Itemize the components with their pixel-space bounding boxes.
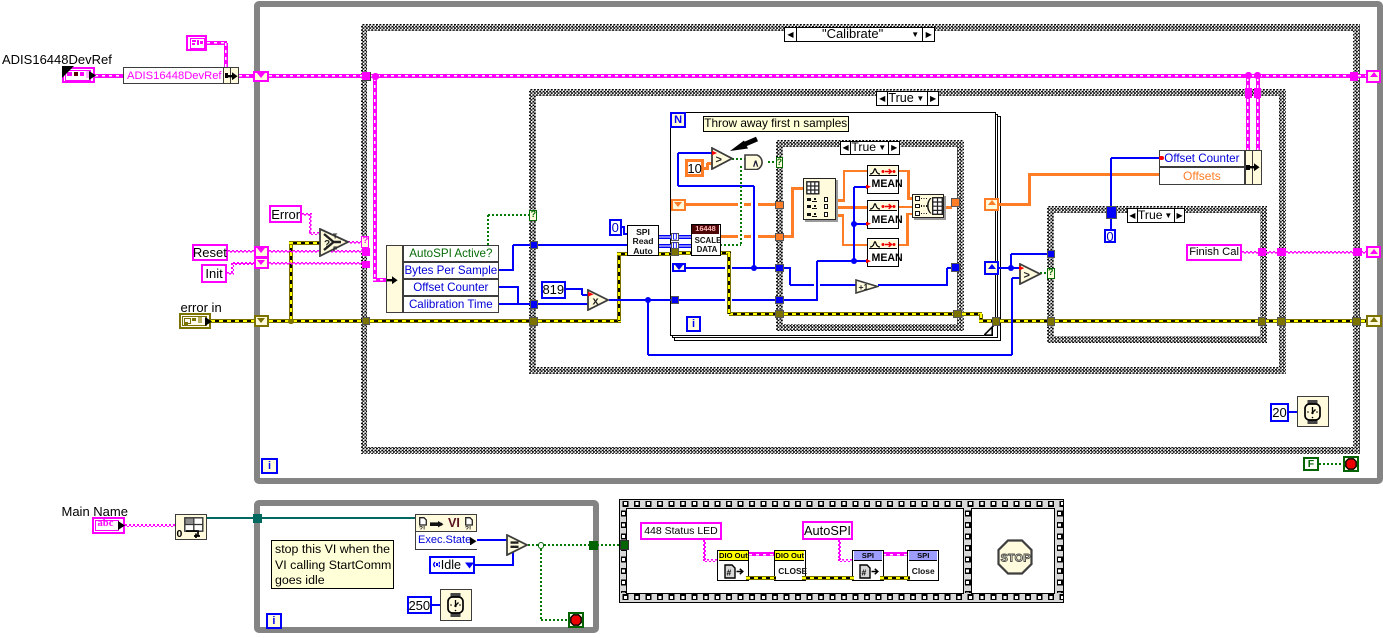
int wire MEAN2 feed <box>854 223 868 225</box>
subVI SPI Read Auto <box>627 225 659 256</box>
float array wire into Offsets property <box>1028 173 1160 176</box>
int wire multiply branch down <box>647 300 649 355</box>
error wire: branch up to Select node <box>289 244 293 322</box>
crossing gap DevRef/pinkdrop guard <box>0 0 1 1</box>
tunnel Reset on Calibrate left <box>362 248 370 256</box>
boolean constant F <box>1303 457 1319 471</box>
int wire right SR -> junction/> input <box>999 267 1020 269</box>
tunnel DevRef on Calibrate left <box>362 72 371 81</box>
tunnel Calibration Time on True left <box>530 300 538 309</box>
string wire Reset -> loop SR <box>228 250 254 253</box>
string wire Finish Cal -> Calibrate border <box>1286 251 1354 254</box>
int wire junction -> small case tunnel <box>1011 253 1048 255</box>
tunnel blue out on inner case right <box>951 263 960 272</box>
int wire tunnel A dropper <box>789 268 791 285</box>
wire DevRef main horizontal inside case <box>370 74 1351 78</box>
string wire Reset inside loop <box>269 250 362 253</box>
tunnel ? (AutoSPI) on True left <box>529 210 537 220</box>
string constant 448 Status LED <box>640 522 723 539</box>
string wire Init stub <box>227 272 234 275</box>
wire DevRef drop to Offset Counter node (1) <box>1246 78 1250 151</box>
subVI MEAN 2 <box>867 200 899 229</box>
error wire DIO2->SPI1 <box>802 576 854 580</box>
float array wire for-loop SR -> up turn <box>999 203 1031 206</box>
tunnel error on for loop left <box>671 248 679 256</box>
open VI reference node <box>175 514 208 540</box>
property node Offset Counter / Offsets (write) <box>1159 150 1262 185</box>
error wire re-draw vertical inside for loop <box>727 253 731 314</box>
error wire: branch into Select middle input <box>289 241 320 245</box>
shift register Reset (left) <box>254 246 269 258</box>
float wire MEAN3 out <box>899 244 909 247</box>
float wire MEAN2 out -> build-array in2 <box>899 206 913 209</box>
shift register error (left) <box>254 315 269 327</box>
tunnel orange 1 on inner case left <box>775 201 784 209</box>
float wire into build-array in1 <box>907 197 912 200</box>
junction dot error branch <box>288 319 293 324</box>
tunnel error on True right <box>1277 317 1286 326</box>
ref wire DIO Out -> DIO Out CLOSE <box>749 552 775 556</box>
float array wire build-array -> inner case tunnel <box>944 206 952 209</box>
tunnel blue B on inner case left <box>775 296 784 304</box>
bool wire loop2 -> sequence tunnel <box>597 544 621 546</box>
error wire SPI1->SPI2 <box>880 576 910 580</box>
bool wire drop to loop2 stop terminal <box>540 545 542 620</box>
decimate 1D array node <box>803 178 836 220</box>
float wire Decimate out3 <box>836 214 845 217</box>
greater-than node (samples) <box>1019 263 1042 285</box>
DIO Out write node <box>717 550 749 581</box>
coercion dot MEAN2 input <box>866 222 871 226</box>
case selector "Calibrate" <box>784 27 935 43</box>
case selector True (small right) <box>1127 208 1185 223</box>
array wire SPI out1 -> indexing tunnel <box>659 235 673 239</box>
int wire MEAN1 feed <box>854 186 868 188</box>
multiply node <box>587 289 610 311</box>
tunnel DevRef drop 2 on True top <box>1254 88 1261 97</box>
svg-text:STOP: STOP <box>1000 552 1030 564</box>
string wire Init riser <box>231 263 234 273</box>
int wire Calibration Time out -> multiply <box>499 303 589 305</box>
error wire: inner case -> jog <box>962 312 982 316</box>
int wire 0 -> SPI Read Auto stub <box>621 226 626 228</box>
int wire MEAN column vertical <box>853 187 855 261</box>
numeric constant 20 <box>1270 403 1289 422</box>
float wire Decimate out1 <box>836 199 846 202</box>
string constant AutoSPI <box>802 521 853 540</box>
wire DevRef drop to property node <box>373 78 377 282</box>
shift register blue (left) <box>672 263 686 273</box>
comment pointer arrow <box>730 136 758 152</box>
while loop 1 stop condition terminal <box>1343 456 1359 472</box>
float wire inner tunnel -> riser <box>784 235 795 238</box>
case structure True (outer) frame <box>529 89 1286 374</box>
control terminal Main Name (string) <box>92 517 124 533</box>
int wire +1 -> inner case right tunnel <box>947 267 952 269</box>
svg-text:T: T <box>333 234 338 241</box>
while loop 1 border (main outer loop) <box>254 1 1383 485</box>
int wire 10 into > <box>707 162 713 165</box>
string wire AutoSPI -> SPI node <box>838 559 853 562</box>
constant box ADIS16448DevRef with unbundle columns <box>123 67 239 85</box>
junction ring equals output <box>538 542 544 548</box>
error wire: inside small case <box>1055 319 1259 323</box>
string wire Init -> loop SR <box>233 262 254 265</box>
case structure True (inner, around MEAN nodes) frame <box>776 140 965 331</box>
subVI MEAN 1 <box>867 165 899 194</box>
float wire Decimate out3 dropper <box>842 214 845 246</box>
wire DevRef loop tunnel->case tunnel <box>269 74 362 78</box>
svg-text:>: > <box>1023 269 1029 281</box>
wait ms node (250) <box>440 589 472 621</box>
crossing gap orange/blue 1 <box>751 202 757 208</box>
case selector terminal ? <box>361 236 369 248</box>
svg-text:x: x <box>593 296 600 308</box>
error wire: error in -> loop SR <box>211 319 254 323</box>
svg-text:>: > <box>716 154 722 166</box>
for loop frame (stacked sheets with page curl) <box>674 116 1000 340</box>
bool wire into loop2 stop terminal <box>541 619 570 621</box>
int wire 10 jog <box>706 163 709 169</box>
coercion dot MEAN1 input <box>866 185 871 189</box>
int wire +1 out <box>878 284 948 286</box>
tunnel orange 2 on inner case left <box>775 233 784 241</box>
float wire into MEAN3 <box>842 244 868 247</box>
coercion dot MEAN3 input <box>866 259 871 263</box>
error wire: vertical up to SPI Read Auto <box>617 252 621 321</box>
int wire Offset Counter dropper <box>517 287 519 304</box>
subVI MEAN 3 <box>867 238 899 267</box>
string wire AutoSPI drop <box>838 540 841 561</box>
tunnel boolean on loop2 right <box>589 541 597 550</box>
int wire bottom riser to > <box>1011 278 1013 354</box>
int wire Idle riser <box>512 550 514 565</box>
tunnel error on inner case right <box>953 310 962 319</box>
comment stop this VI <box>271 540 394 589</box>
error wire: to inner case tunnel <box>729 312 777 316</box>
junction DevRef drop 2 <box>1254 72 1261 79</box>
svg-text:?!: ?! <box>419 525 425 530</box>
for loop count terminal N <box>670 112 686 128</box>
error wire: inside for loop behind SCALE DATA <box>678 251 731 255</box>
bool wire F -> loop1 stop terminal <box>1319 463 1344 465</box>
int wire shift reg -> inner case tunnel A <box>684 267 777 269</box>
shift register Finish Cal (right) <box>1366 246 1381 258</box>
error wire: True case -> up-turn <box>538 319 621 323</box>
case structure True (right, Finish Cal) frame <box>1047 206 1267 343</box>
int wire 250 -> wait <box>432 604 442 606</box>
int wire into +1 <box>790 284 857 286</box>
wire queue icon horizontal <box>207 41 227 45</box>
label Main Name <box>62 504 128 519</box>
svg-text:+1: +1 <box>859 282 869 292</box>
int wire multiply out -> for loop tunnel <box>609 299 673 301</box>
increment +1 node <box>855 279 879 294</box>
junction dot right SR <box>1008 265 1014 271</box>
int wire 20 -> wait <box>1289 411 1299 413</box>
shift register DevRef (left) <box>253 71 270 83</box>
string wire 448 Status LED -> DIO node <box>703 559 719 562</box>
case selector True (outer) <box>876 91 939 106</box>
float wire into MEAN1 <box>843 170 868 173</box>
float array wire for-loop SR -> inner case tunnel <box>684 203 777 206</box>
junction dot SR tap <box>751 265 757 271</box>
int wire Idle into equals <box>507 549 513 551</box>
int wire tap riser left <box>677 153 679 187</box>
bool wire And gate output -> case selector <box>768 161 777 163</box>
float wire into build-array in3 <box>907 213 913 216</box>
junction dot MEAN3 feed <box>851 258 857 264</box>
for loop iteration terminal i <box>686 316 702 332</box>
crossing gap orange/green 2 <box>738 234 744 240</box>
string wire Init inside loop <box>269 262 362 265</box>
error wire: loop SR -> case tunnel <box>269 319 362 323</box>
tunnel DevRef on Calibrate right <box>1350 72 1359 81</box>
int wire 0 (small case) riser <box>1110 158 1112 229</box>
bool wire AutoSPI Active -> tunnel <box>488 214 530 216</box>
greater-than node (i > 10) <box>711 147 734 170</box>
int wire Exec.State -> equals <box>477 539 508 541</box>
case selector True (inner) <box>840 141 900 155</box>
int wire 819 into multiply <box>582 294 589 296</box>
while loop 1 iteration terminal i <box>261 458 277 474</box>
string constant Init <box>201 264 227 283</box>
int wire +1 riser <box>946 268 948 285</box>
float array wire riser to Offsets <box>1028 173 1031 205</box>
crossing gap orange/green 1 <box>738 202 744 208</box>
numeric constant 10 <box>685 159 704 177</box>
int wire 819 jog <box>581 289 583 295</box>
int wire 0 jog <box>623 227 625 235</box>
ref wire SPI -> SPI Close <box>883 552 908 556</box>
tunnel Bytes Per Sample on True left <box>530 241 538 249</box>
numeric constant 0 (SPI reads) <box>609 219 622 236</box>
tunnel DevRef drop 1 on True top <box>1245 88 1252 97</box>
junction dot MEAN2 feed <box>851 221 857 227</box>
bool wire = output <box>528 544 590 546</box>
bool wire SCALE DATA -> And gate horizontal <box>720 244 741 246</box>
error wire: inside Calibrate case <box>370 319 530 323</box>
float wire MEAN1 out <box>899 170 910 173</box>
crossing gap blueSR/error <box>725 266 733 271</box>
wire DevRef drop to Offset Counter node (2) <box>1256 78 1260 151</box>
string wire Error drop <box>309 214 312 234</box>
int wire MEAN3 feed <box>817 260 868 262</box>
svg-text:#: # <box>727 567 732 577</box>
equals node <box>506 534 529 556</box>
error wire: behind SPI Read Auto to for-loop tunnel <box>617 252 672 256</box>
tunnel Finish Cal on small case right <box>1258 248 1266 257</box>
int wire into > lower input <box>1012 277 1020 279</box>
string wire Main Name -> open ref <box>125 524 176 527</box>
float wire Decimate out1 riser <box>843 170 846 202</box>
wait ms node (20) <box>1297 396 1329 428</box>
error wire: True case -> Calibrate border <box>1286 319 1354 323</box>
error wire: Calibrate border -> loop SR <box>1361 319 1369 323</box>
control terminal ADIS16448DevRef (cluster refnum) <box>62 67 95 83</box>
int wire multiply -> inner case tunnel B <box>672 299 777 301</box>
string wire select output -> case selector <box>348 241 362 244</box>
bool wire AutoSPI Active riser <box>487 215 489 245</box>
select node (case chooser) <box>319 228 350 257</box>
tunnel error on True left <box>529 317 538 326</box>
indexing tunnel 2 on for loop <box>671 242 679 250</box>
tunnel ? on small case left (selector) <box>1047 268 1055 279</box>
flat sequence structure (film strip frame, 2 frames) <box>619 499 1064 603</box>
float array wire SCALE DATA -> inner case tunnel <box>720 235 776 238</box>
error wire: for loop -> small case <box>1000 319 1048 323</box>
int wire Idle -> jog <box>475 564 514 566</box>
string wire 448 Status LED drop <box>703 540 706 562</box>
tunnel error on Calibrate left <box>362 317 371 326</box>
tunnel error on inner case left <box>775 310 784 319</box>
array wire tunnel -> SCALE DATA in1 <box>678 235 691 239</box>
int wire Bytes Per Sample tunnel -> SPI node <box>538 244 629 246</box>
int wire Bytes Per Sample out <box>499 269 514 271</box>
float wire into Decimate input <box>791 187 803 190</box>
error wire: small case -> True case border <box>1265 319 1278 323</box>
coercion dot > count input <box>712 150 718 155</box>
junction dot multiply branch <box>645 297 651 303</box>
indexing tunnel 1 on for loop <box>671 233 679 241</box>
shift register Init (left) <box>254 257 269 269</box>
int wire zigzag dropper (x754) <box>753 186 755 268</box>
invoke node VI / Exec.State <box>415 514 477 550</box>
tunnel Init on Calibrate left <box>362 261 370 269</box>
string constant Error <box>269 205 302 224</box>
SPI Close node <box>907 550 939 581</box>
error wire: jog down <box>979 314 983 322</box>
wire queue icon vertical drop <box>224 43 228 68</box>
queue/notifier refnum icon <box>186 35 207 51</box>
tunnel error on Calibrate right <box>1352 317 1361 326</box>
build array node <box>912 194 944 218</box>
label ADIS16448DevRef <box>2 52 112 67</box>
case structure "Calibrate" frame <box>361 24 1360 453</box>
svg-text:∧: ∧ <box>752 158 759 169</box>
numeric constant 250 <box>407 596 432 614</box>
junction DevRef drop <box>372 73 379 80</box>
label error in <box>181 300 222 315</box>
svg-text:?!: ?! <box>465 525 471 530</box>
tunnel error on small case right <box>1258 317 1266 326</box>
int wire Bytes Per Sample riser <box>512 245 514 270</box>
wire DevRef name box->loop tunnel <box>239 74 254 78</box>
error wire DIO1->DIO2 <box>746 576 776 580</box>
int wire 10 -> > node <box>704 167 709 170</box>
string constant Reset <box>192 244 229 262</box>
int wire Bytes Per Sample -> tunnel <box>513 244 531 246</box>
array wire tunnel -> SCALE DATA in2 <box>678 244 691 248</box>
string wire Finish Cal -> small case tunnel <box>1242 251 1258 254</box>
tunnel error on for loop right <box>992 317 1001 326</box>
int wire MEAN feed riser <box>816 261 818 300</box>
teal wire open VI ref -> invoke node <box>207 517 417 519</box>
SPI write node <box>852 550 884 581</box>
array wire SPI out2 -> indexing tunnel <box>659 244 673 248</box>
shift register error (right) <box>1366 315 1382 328</box>
int wire junction riser <box>1010 254 1012 268</box>
while loop 2 border (stop-watch loop) <box>254 500 599 634</box>
property node AutoSPI Active?/Bytes Per Sample/Offset Counter/Calibration Time <box>386 245 500 313</box>
int wire 819 out <box>566 288 583 290</box>
tunnel error on small case left <box>1047 317 1055 325</box>
wire DevRef stub into property node arrow <box>373 278 388 282</box>
crossing gap orange/blue 2 <box>751 234 757 240</box>
numeric constant 0 (small case) <box>1104 229 1117 244</box>
enum constant Idle <box>429 556 475 573</box>
svg-text:#: # <box>862 567 867 577</box>
while loop 2 stop condition terminal <box>568 612 584 628</box>
crossing gap +1/vertical <box>814 283 820 287</box>
And gate <box>744 154 768 171</box>
junction DevRef drop 1 <box>1245 72 1252 79</box>
comment Throw away first n samples <box>703 116 850 132</box>
crossing gap blueB/error <box>725 297 733 302</box>
float wire riser to Decimate <box>791 187 794 238</box>
shift register orange (left) <box>671 199 686 211</box>
while loop 2 iteration terminal i <box>266 613 282 629</box>
string wire Error label <box>302 213 312 216</box>
int wire tunnel B -> riser <box>784 299 819 301</box>
bool wire And gate second input riser <box>740 166 742 246</box>
subVI 16448 SCALE DATA <box>691 224 721 257</box>
float wire Decimate out2 -> MEAN2 <box>836 206 868 209</box>
string wire Error into select <box>309 232 320 235</box>
error wire: jog -> for loop exit tunnel <box>979 319 994 323</box>
tunnel ? on inner case left (selector) <box>776 157 784 168</box>
int wire into Offset Counter property <box>1111 157 1162 159</box>
bool wire > to And gate <box>732 158 746 160</box>
string constant Finish Cal <box>1186 244 1243 261</box>
wire DevRef case->loop right SR <box>1358 74 1368 78</box>
wire DevRef ref pink terminal->name box <box>95 74 123 78</box>
int wire long bottom run <box>648 354 1013 356</box>
shift register orange (right) <box>984 198 999 212</box>
shift register blue (right) <box>984 261 999 275</box>
tunnel blue on small case left <box>1047 250 1055 258</box>
DIO Out CLOSE node <box>774 550 806 581</box>
float wire MEAN1 dropper <box>907 170 910 200</box>
int wire tap zigzag horizontal <box>678 185 755 187</box>
error wire: vertical down inside for loop <box>727 253 731 314</box>
shift register DevRef (right) <box>1366 70 1381 83</box>
tunnel orange out on inner case right <box>951 198 960 207</box>
tunnel Finish Cal on True right <box>1277 248 1286 257</box>
STOP sign <box>997 539 1033 575</box>
string wire Finish Cal -> True border <box>1265 251 1278 254</box>
tunnel boolean on sequence left <box>620 540 629 550</box>
numeric constant 819 <box>541 281 566 299</box>
bool wire > (count) -> small case selector <box>1040 272 1048 274</box>
float wire MEAN3 riser <box>906 213 909 246</box>
int wire tunnel A -> +1 jog <box>784 267 791 269</box>
int wire into > count input <box>678 152 713 154</box>
tunnel VI ref on loop2 left <box>253 514 262 523</box>
tunnel Finish Cal on Calibrate right <box>1353 248 1362 257</box>
error wire: inside inner case <box>784 312 956 316</box>
svg-text:F: F <box>333 247 338 254</box>
tunnel multiply on for loop left <box>671 296 679 304</box>
int wire 0 into SPI Read Auto <box>624 233 628 235</box>
int wire Offset Counter out <box>499 286 520 288</box>
tunnel 0 on small case top <box>1106 206 1117 218</box>
int wire MEAN feed riser redraw <box>816 283 818 299</box>
control terminal error in (error cluster) <box>179 313 212 329</box>
string wire Finish Cal -> loop SR <box>1361 251 1368 254</box>
tunnel blue A on inner case left <box>775 264 784 272</box>
